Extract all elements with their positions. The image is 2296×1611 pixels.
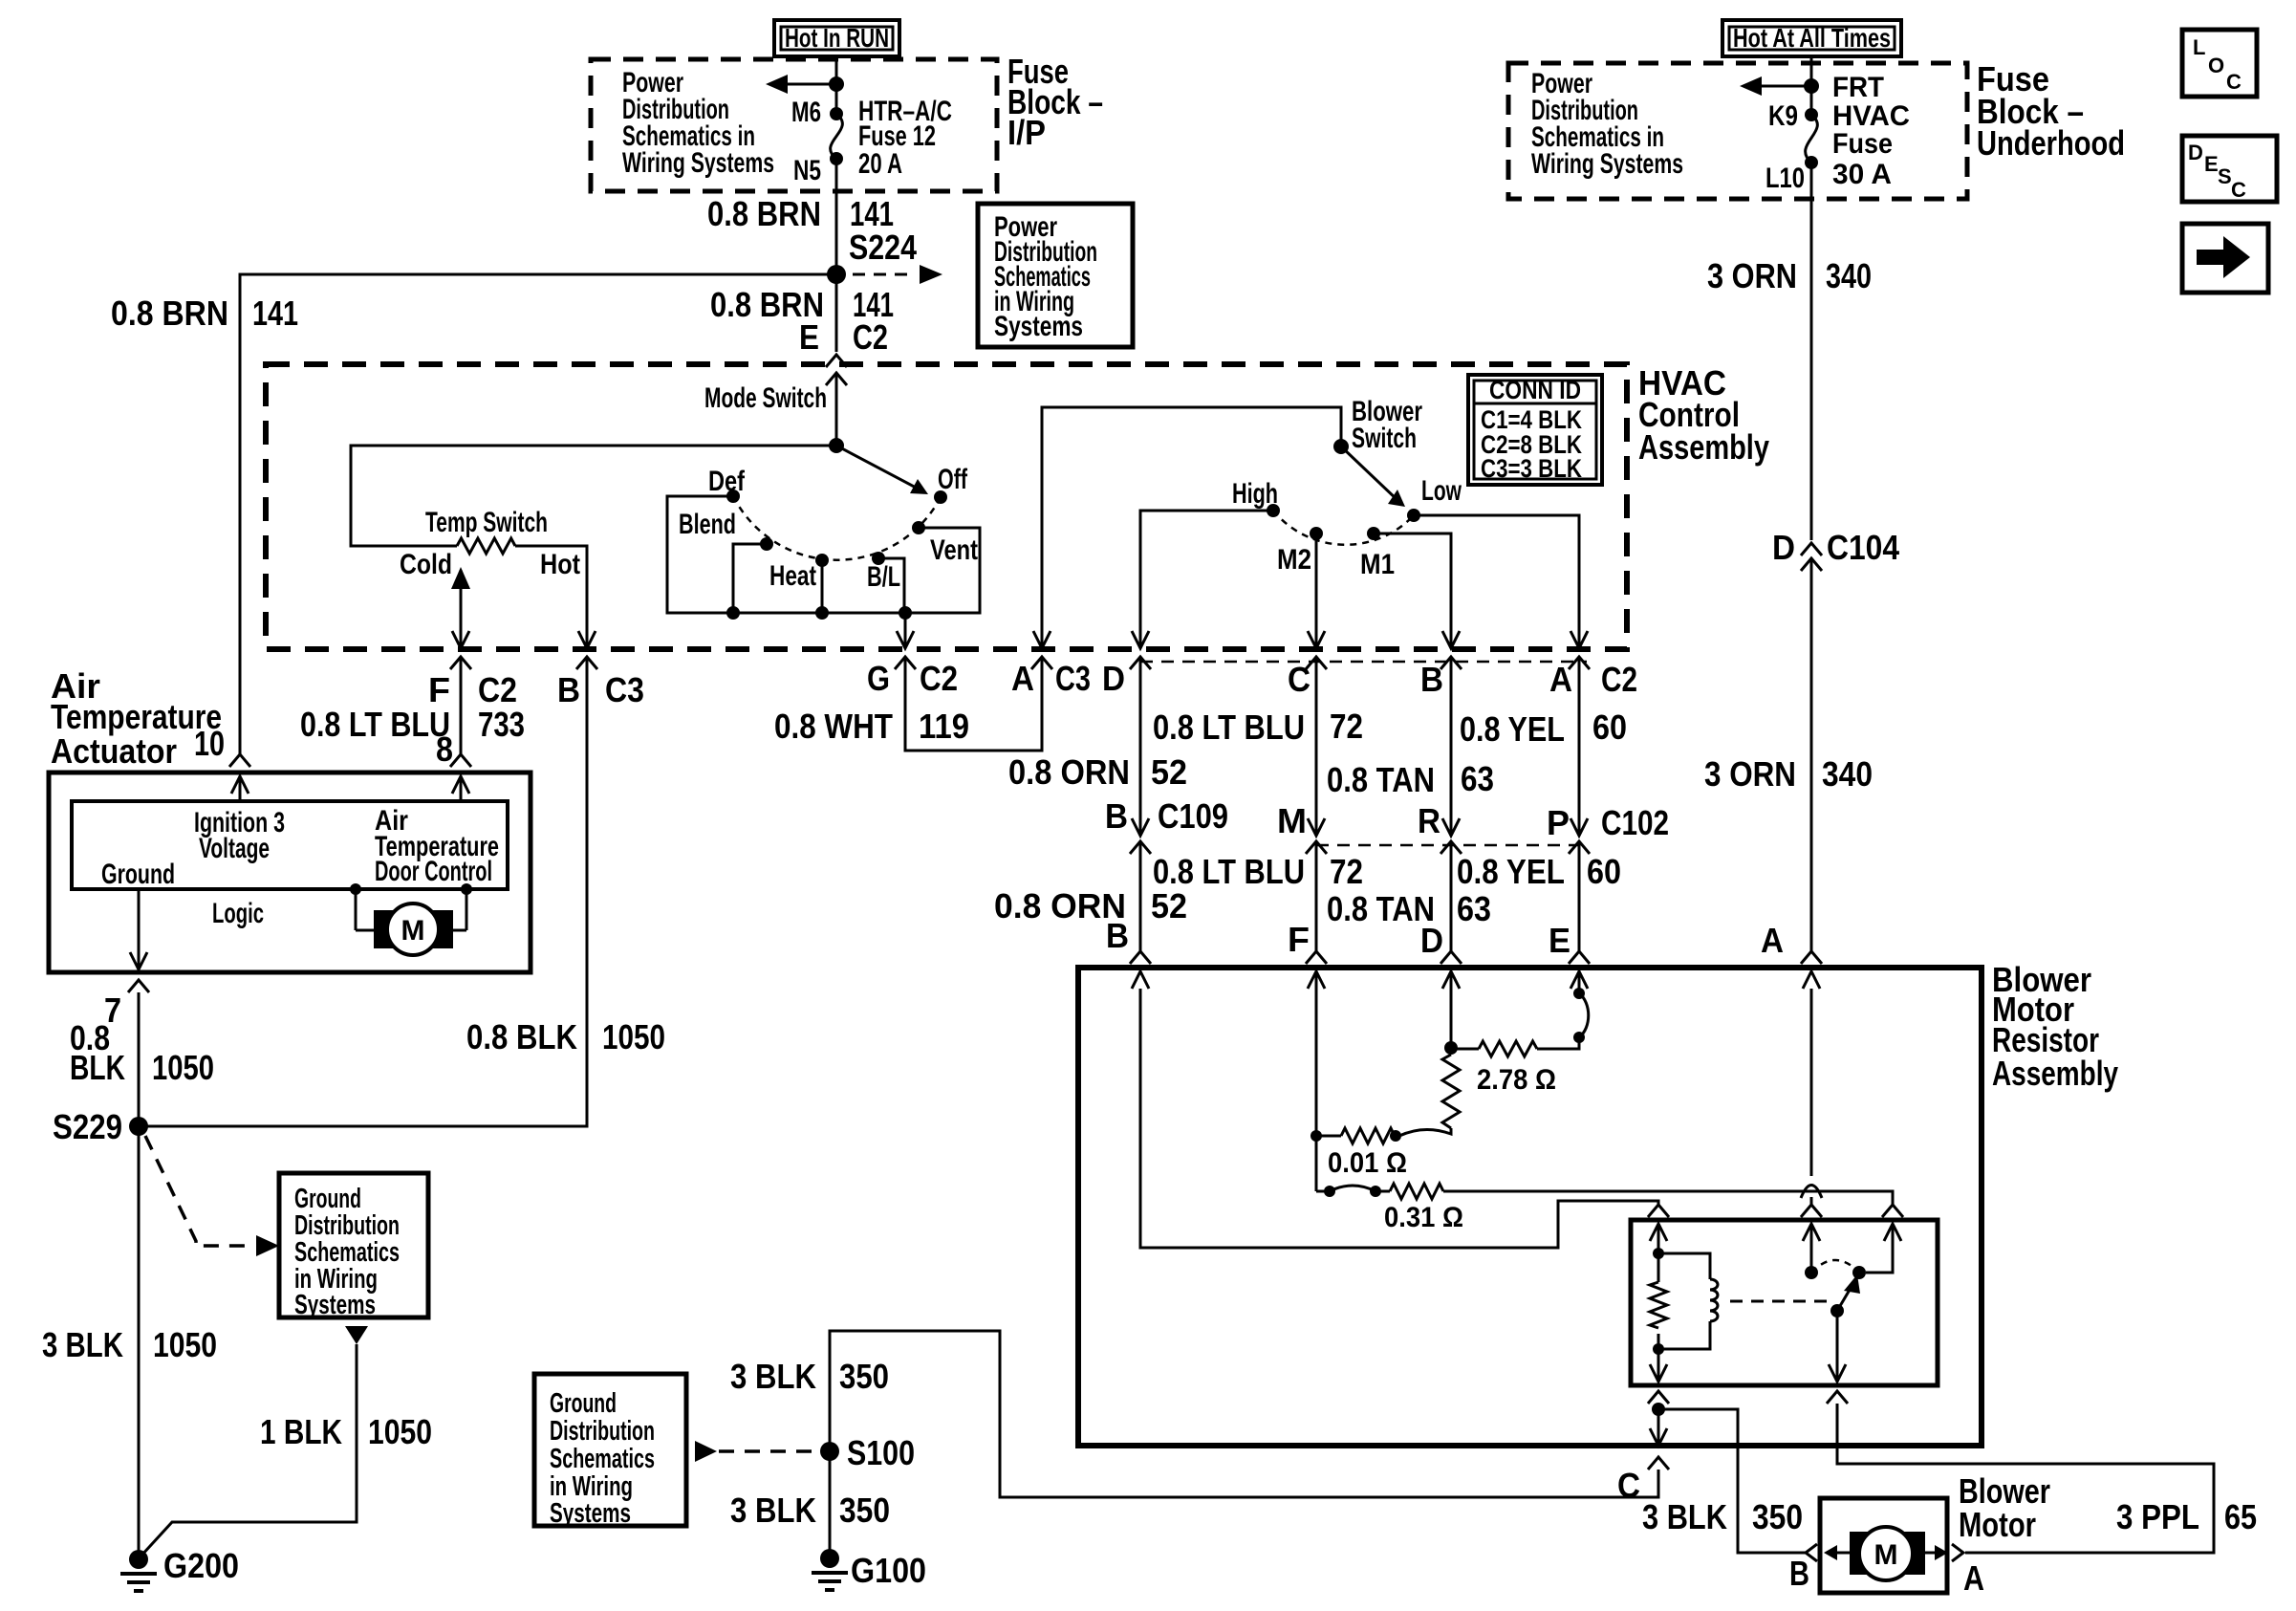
svg-text:C: C — [1288, 660, 1310, 699]
svg-text:E: E — [799, 317, 819, 357]
svg-text:0.8 LT BLU: 0.8 LT BLU — [1153, 708, 1305, 747]
svg-text:B/L: B/L — [867, 561, 900, 593]
fuse FRT HVAC Fuse 30 A — [1805, 108, 1818, 169]
resistor 2.78 ohm — [1479, 1041, 1537, 1056]
resistor 0.01 ohm — [1341, 1128, 1396, 1143]
label Power Distribution Schematics in Wiring Systems (underhood) — [1531, 68, 1683, 180]
connector A of C2 (low) — [1569, 657, 1590, 669]
wire from Hot At All Times into fuse block — [1810, 56, 1813, 115]
svg-text:Systems: Systems — [994, 311, 1083, 342]
relay entry chevrons — [1648, 1205, 1669, 1217]
label FRT HVAC Fuse 30 A — [1832, 72, 1910, 190]
relay suppression resistor — [1650, 1282, 1667, 1328]
wire B column step path to relay coil entry — [1140, 989, 1658, 1248]
svg-text:M: M — [401, 915, 425, 947]
svg-text:1 BLK: 1 BLK — [260, 1412, 342, 1451]
label HVAC Control Assembly — [1638, 363, 1769, 467]
svg-text:M6: M6 — [791, 97, 821, 128]
DESC reference box — [2182, 136, 2277, 202]
svg-text:M: M — [1874, 1539, 1898, 1571]
svg-text:3 BLK: 3 BLK — [730, 1357, 816, 1396]
svg-text:3 BLK: 3 BLK — [42, 1325, 123, 1364]
label 3 BLK 350 (upper) — [730, 1357, 889, 1396]
Blower Motor Resistor Assembly box — [1078, 968, 1982, 1446]
relay mechanical dashed link — [1730, 1300, 1830, 1303]
fuse HTR-A/C Fuse 12 20 A — [830, 107, 843, 165]
svg-text:8: 8 — [436, 729, 453, 769]
svg-text:S229: S229 — [53, 1107, 122, 1146]
svg-text:Logic: Logic — [212, 898, 264, 929]
svg-text:Ground: Ground — [101, 859, 175, 890]
blower switch dashed contact arc — [1273, 511, 1414, 545]
svg-text:52: 52 — [1151, 752, 1187, 792]
svg-text:Hot: Hot — [540, 549, 580, 580]
label 0.8 YEL 60 (row2) — [1457, 852, 1621, 891]
connector R of C102 — [1440, 658, 1462, 854]
node Hot In RUN tag box — [774, 20, 899, 56]
svg-text:2.78 Ω: 2.78 Ω — [1477, 1064, 1556, 1096]
svg-text:Door Control: Door Control — [375, 856, 492, 887]
svg-text:C: C — [2226, 70, 2242, 94]
svg-text:1050: 1050 — [152, 1048, 214, 1087]
wire vertical resistor bottom link — [1399, 1128, 1451, 1136]
LOC reference box — [2182, 30, 2257, 97]
wire actuator ground down to G200 — [138, 992, 141, 1559]
dashed reference from S229 to ground distribution box — [145, 1136, 279, 1256]
connector B of C2 (M1) — [1440, 657, 1462, 669]
dashed connector group line C102 — [1316, 844, 1579, 847]
svg-text:0.8 LT BLU: 0.8 LT BLU — [1153, 852, 1305, 891]
ground G100 — [812, 1549, 926, 1590]
wires row2 to resistor box entries — [1139, 841, 1142, 952]
blower switch contact M1 — [1367, 527, 1380, 540]
connector B of blower motor — [1806, 1544, 1817, 1561]
svg-text:C109: C109 — [1158, 796, 1228, 836]
label 7 / 0.8 BLK 1050 — [70, 991, 214, 1087]
labels C B A C2 — [1288, 660, 1637, 699]
label 0.8 YEL 60 (row1) — [1460, 708, 1627, 749]
svg-text:D: D — [1772, 528, 1795, 567]
wire S224 left branch — [240, 274, 836, 755]
wire relay common to blower motor A — [1837, 1404, 2214, 1553]
blower switch arm (to Low) — [1341, 446, 1405, 507]
svg-text:D: D — [2188, 141, 2203, 164]
power distribution schematics reference box — [978, 204, 1133, 347]
wire 1 BLK 1050 from box to G200 — [141, 1344, 357, 1557]
wire M1 to B connector — [1374, 533, 1460, 648]
connector A of blower motor — [1952, 1544, 1963, 1561]
svg-text:D: D — [1102, 659, 1125, 698]
svg-text:B: B — [1420, 660, 1443, 699]
splice S229 — [53, 1107, 148, 1146]
label 1 BLK 1050 — [260, 1412, 432, 1451]
svg-text:0.8 TAN: 0.8 TAN — [1327, 889, 1435, 928]
connector below relay coil exit — [1648, 1391, 1669, 1404]
svg-text:L: L — [2193, 35, 2205, 59]
wire C104 down to resistor assembly pin A — [1810, 558, 1813, 951]
svg-text:C2: C2 — [853, 317, 888, 357]
connector C of C2 (M2) — [1306, 657, 1327, 669]
resistor vertical (D to 0.01 node) — [1442, 1055, 1460, 1128]
svg-text:1050: 1050 — [602, 1017, 665, 1056]
dashed reference arrow from S224 to power distribution box — [853, 265, 942, 284]
svg-text:S100: S100 — [847, 1433, 915, 1472]
svg-text:350: 350 — [1752, 1497, 1803, 1536]
svg-text:0.8 YEL: 0.8 YEL — [1457, 852, 1565, 891]
label E C2 — [799, 317, 888, 357]
relay entry arrows — [1650, 1224, 1901, 1241]
label Blower Motor — [1959, 1471, 2050, 1544]
connector below relay common exit — [1827, 1391, 1848, 1404]
wire from Hot In RUN into fuse block — [835, 56, 838, 114]
connector chevrons at resistor box B F D E A — [1130, 951, 1151, 964]
relay common output wire — [1829, 1311, 1846, 1382]
wire Low to A connector — [1414, 515, 1588, 648]
svg-text:340: 340 — [1826, 256, 1872, 295]
svg-text:141: 141 — [252, 294, 298, 333]
label Air Temperature Actuator — [51, 666, 222, 771]
label 3 BLK 350 (blower motor) — [1642, 1497, 1803, 1536]
splice S100 — [820, 1433, 915, 1472]
svg-text:Voltage: Voltage — [199, 833, 270, 864]
label 0.8 TAN 63 (row1) — [1327, 759, 1494, 799]
label 0.8 WHT 119 — [774, 707, 969, 746]
wire column D/B (x1192) — [1139, 658, 1142, 836]
fuse block I/P dashed box — [591, 59, 997, 191]
splice S224 — [827, 228, 917, 284]
svg-text:F: F — [428, 670, 450, 709]
blower motor M symbol — [1824, 1527, 1948, 1580]
mode switch contact B/L — [872, 552, 885, 565]
svg-text:E: E — [2204, 152, 2219, 176]
CONN ID table — [1468, 375, 1602, 485]
wire mode switch output to G connector — [897, 613, 914, 648]
wire fuse output down to C104 — [1810, 163, 1813, 540]
svg-text:63: 63 — [1457, 889, 1491, 928]
mode switch arm (to Off) — [836, 446, 928, 494]
svg-text:Underhood: Underhood — [1977, 123, 2125, 163]
svg-text:FRT: FRT — [1832, 72, 1884, 103]
relay coil ground junction — [1650, 1403, 1667, 1446]
relay coil node top — [1653, 1224, 1664, 1282]
mode switch contact Def — [726, 490, 740, 503]
motor M inside actuator — [350, 883, 472, 955]
svg-text:340: 340 — [1822, 754, 1873, 794]
label 0.8 BLK 1050 — [466, 1017, 665, 1056]
svg-text:Blend: Blend — [679, 509, 736, 540]
mode switch feed junction — [829, 438, 844, 453]
svg-text:Temp Switch: Temp Switch — [425, 507, 548, 538]
label 0.8 BRN 141 (above S224) — [707, 194, 894, 233]
svg-text:E: E — [1549, 921, 1570, 960]
svg-text:C102: C102 — [1601, 803, 1669, 842]
svg-text:0.8 YEL: 0.8 YEL — [1460, 709, 1565, 749]
wire temp hot to S229 — [139, 658, 587, 1126]
labels G C2 A C3 D — [867, 659, 1125, 698]
wire S224 branch to actuator pin 10 — [194, 724, 250, 767]
blower switch pivot — [1333, 439, 1349, 454]
labels F C2 B C3 — [428, 670, 644, 709]
svg-text:K9: K9 — [1768, 100, 1798, 132]
wire blower switch feed from A(C3) — [1042, 407, 1341, 648]
label 0.8 TAN 63 (row2) — [1327, 889, 1491, 928]
wire mode switch feed to temp switch box — [351, 446, 836, 546]
svg-text:733: 733 — [478, 705, 525, 744]
svg-text:0.01 Ω: 0.01 Ω — [1328, 1147, 1407, 1179]
mode switch contact Vent — [912, 521, 925, 534]
label 0.8 ORN 52 (row1) — [1008, 752, 1187, 792]
svg-text:52: 52 — [1151, 886, 1187, 925]
connector F of C2 (temp switch wiper) — [450, 657, 471, 669]
label B and A (motor pins) — [1789, 1554, 1984, 1598]
svg-text:I/P: I/P — [1007, 113, 1046, 152]
blower motor box — [1820, 1498, 1947, 1593]
svg-text:High: High — [1232, 478, 1278, 510]
svg-text:Def: Def — [708, 466, 746, 497]
label 3 BLK 350 (lower) — [730, 1491, 890, 1530]
svg-text:Low: Low — [1421, 475, 1462, 507]
svg-text:B: B — [1106, 916, 1129, 955]
svg-text:3 BLK: 3 BLK — [1642, 1497, 1727, 1536]
forward arrow reference box — [2182, 224, 2268, 293]
blower switch contact M2 — [1310, 527, 1323, 540]
svg-text:A: A — [1549, 660, 1572, 699]
connector G of C2 (mode switch out) — [895, 657, 916, 669]
svg-text:60: 60 — [1592, 708, 1627, 747]
label 0.8 LT BLU 733 — [300, 705, 525, 769]
svg-text:Wiring Systems: Wiring Systems — [1531, 148, 1683, 180]
svg-text:0.8 ORN: 0.8 ORN — [1008, 752, 1130, 792]
svg-text:3 ORN: 3 ORN — [1707, 256, 1797, 295]
svg-text:1050: 1050 — [153, 1325, 217, 1364]
arrow to other loads (left) in underhood fuse block — [1740, 76, 1819, 96]
actuator pin 10 arrow — [231, 776, 249, 801]
wire A column down to relay — [1801, 989, 1822, 1205]
svg-text:R: R — [1418, 801, 1440, 840]
mode switch position wiring bus — [667, 496, 980, 620]
ground distribution schematics box (left) — [279, 1173, 428, 1320]
temp switch resistor — [457, 538, 515, 554]
actuator logic inner box — [72, 801, 508, 889]
mode switch contact Off — [934, 490, 947, 504]
svg-text:B: B — [1789, 1554, 1809, 1593]
ground distribution schematics box (center) — [534, 1374, 686, 1529]
relay coil — [1658, 1253, 1718, 1349]
svg-text:C: C — [1617, 1466, 1640, 1505]
arrow to other loads (left) in I/P fuse block — [766, 75, 844, 94]
connector B of C3 (temp switch hot) — [576, 657, 597, 669]
svg-text:N5: N5 — [793, 155, 821, 186]
svg-text:0.31 Ω: 0.31 Ω — [1384, 1202, 1463, 1233]
relay box — [1631, 1220, 1938, 1385]
wire mode G loop to blower feed A — [905, 658, 1042, 751]
svg-text:Mode Switch: Mode Switch — [704, 382, 827, 414]
svg-text:D: D — [1420, 921, 1443, 960]
ground G200 — [120, 1546, 239, 1591]
svg-text:O: O — [2208, 54, 2224, 77]
label Blower Motor Resistor Assembly — [1992, 960, 2118, 1093]
svg-text:C3: C3 — [605, 670, 644, 709]
svg-text:C3: C3 — [1055, 659, 1091, 698]
svg-text:S: S — [2218, 164, 2232, 188]
wire 3 BLK 350 blower motor ground run — [830, 1331, 1658, 1558]
svg-text:Systems: Systems — [294, 1290, 376, 1320]
svg-text:CONN ID: CONN ID — [1489, 376, 1581, 404]
svg-text:BLK: BLK — [70, 1048, 125, 1087]
wire M2 to C connector — [1308, 533, 1325, 648]
svg-text:C2: C2 — [1601, 660, 1637, 699]
svg-text:M: M — [1277, 801, 1307, 840]
temp switch wiper double arrow — [451, 567, 470, 648]
arrow from ground box down to 1 BLK wire — [345, 1326, 368, 1344]
mode switch dashed contact arc — [733, 496, 941, 560]
connector D of C104 — [1772, 528, 1899, 571]
temp switch hot side wire — [515, 546, 596, 648]
labels B C109 M R P C102 — [1105, 796, 1669, 842]
arrow and dashed reference to S100 — [695, 1441, 818, 1462]
blower switch contact Low — [1407, 509, 1420, 522]
wire E column with curved jumper — [1537, 971, 1589, 1049]
label 0.8 BRN 141 (left branch) — [111, 294, 298, 333]
label 0.8 LT BLU 72 (row2) — [1153, 852, 1363, 891]
svg-text:350: 350 — [839, 1357, 889, 1396]
svg-text:Vent: Vent — [930, 534, 978, 566]
connector chevron at actuator pin 8 — [450, 754, 471, 767]
connector B of C109 — [1130, 818, 1151, 854]
svg-text:F: F — [1288, 920, 1310, 959]
relay switch contacts — [1805, 1224, 1893, 1279]
svg-text:C2: C2 — [478, 670, 517, 709]
svg-text:Actuator: Actuator — [51, 731, 177, 771]
svg-text:Systems: Systems — [550, 1498, 631, 1529]
svg-text:B: B — [1105, 796, 1128, 836]
wire High to D connector — [1132, 511, 1273, 648]
relay coil node bottom — [1650, 1334, 1667, 1382]
svg-text:0.8 TAN: 0.8 TAN — [1327, 760, 1435, 799]
svg-text:0.8 WHT: 0.8 WHT — [774, 707, 893, 746]
wire relay to blower motor B — [1658, 1409, 1806, 1553]
connector P of C102 — [1569, 658, 1590, 854]
connector A of C3 (blower switch feed) — [1031, 657, 1052, 669]
connector E of C2 (HVAC control entry) — [826, 355, 847, 446]
Air Temperature Actuator box — [49, 773, 531, 972]
svg-text:0.8 BLK: 0.8 BLK — [466, 1017, 577, 1056]
svg-text:3 PPL: 3 PPL — [2116, 1497, 2199, 1536]
svg-text:C3=3 BLK: C3=3 BLK — [1481, 454, 1582, 483]
label HTR-A/C Fuse 12 20 A — [858, 96, 952, 180]
wire D column to junction — [1444, 971, 1479, 1055]
svg-text:C2: C2 — [920, 659, 958, 698]
svg-text:B: B — [557, 670, 580, 709]
svg-text:65: 65 — [2224, 1497, 2257, 1536]
label Fuse Block - I/P — [1007, 52, 1103, 152]
svg-text:63: 63 — [1461, 759, 1494, 798]
svg-text:Hot At All Times: Hot At All Times — [1733, 23, 1891, 53]
svg-text:C: C — [2231, 178, 2246, 202]
label Blower Switch — [1352, 396, 1422, 454]
HVAC Control Assembly dashed box — [266, 364, 1627, 649]
svg-text:30 A: 30 A — [1832, 159, 1892, 190]
svg-text:Assembly: Assembly — [1992, 1054, 2118, 1093]
svg-text:Distribution: Distribution — [550, 1416, 655, 1447]
labels inside actuator — [101, 805, 499, 929]
actuator ground pin wire — [130, 889, 147, 969]
svg-text:Switch: Switch — [1352, 423, 1417, 454]
actuator pin 8 arrow — [452, 776, 469, 801]
wire 0.31 output to relay M1 entry — [1443, 1191, 1893, 1205]
label 0.8 BRN 141 (below S224) — [710, 285, 894, 324]
blower switch contact High — [1267, 504, 1280, 517]
dashed connector group line C2/C3 — [1140, 661, 1587, 664]
svg-text:Heat: Heat — [769, 560, 816, 592]
svg-text:Assembly: Assembly — [1638, 427, 1769, 467]
svg-text:0.8 BRN: 0.8 BRN — [111, 294, 228, 333]
mode switch contact Blend — [760, 537, 773, 551]
connector C chevron below resistor box — [1617, 1457, 1669, 1505]
svg-text:C104: C104 — [1827, 528, 1899, 567]
connector below actuator ground pin — [128, 980, 149, 992]
wire fuse output down to S224 — [835, 159, 838, 352]
svg-text:3 BLK: 3 BLK — [730, 1491, 816, 1530]
label 3 PPL 65 — [2116, 1497, 2257, 1536]
entry arrows inside resistor box — [1132, 971, 1820, 989]
svg-text:0.8 LT BLU: 0.8 LT BLU — [300, 705, 450, 744]
label 0.8 ORN 52 (row2) — [994, 886, 1187, 925]
svg-text:3 ORN: 3 ORN — [1704, 754, 1796, 794]
svg-text:72: 72 — [1330, 852, 1363, 891]
mode switch contact Heat — [815, 554, 829, 567]
label 0.8 LT BLU 72 (row1) — [1153, 707, 1363, 747]
svg-text:Ground: Ground — [550, 1388, 617, 1419]
svg-text:Cold: Cold — [400, 549, 452, 580]
svg-text:60: 60 — [1587, 852, 1621, 891]
labels B F D E A (into resistor assembly) — [1106, 916, 1784, 960]
wire F column through 0.01 node down to 0.31 — [1310, 971, 1390, 1197]
svg-text:G100: G100 — [851, 1551, 926, 1590]
svg-text:Wiring Systems: Wiring Systems — [622, 147, 774, 179]
svg-text:Motor: Motor — [1959, 1505, 2036, 1544]
fuse block underhood dashed box — [1508, 63, 1967, 199]
label Fuse Block - Underhood — [1977, 59, 2125, 163]
label 3 ORN 340 (upper) — [1707, 256, 1872, 295]
svg-text:350: 350 — [839, 1491, 890, 1530]
svg-text:72: 72 — [1330, 707, 1363, 746]
svg-text:A: A — [1011, 659, 1034, 698]
connector D of C3 (high) — [1130, 657, 1151, 669]
svg-text:Fuse: Fuse — [1832, 128, 1893, 160]
svg-text:0.8 BRN: 0.8 BRN — [707, 194, 821, 233]
svg-text:119: 119 — [919, 707, 969, 746]
svg-text:L10: L10 — [1765, 163, 1805, 194]
svg-text:Schematics: Schematics — [550, 1444, 655, 1474]
svg-text:A: A — [1761, 921, 1784, 960]
svg-text:S224: S224 — [849, 228, 917, 267]
svg-text:Hot In RUN: Hot In RUN — [785, 23, 889, 53]
svg-text:Temperature: Temperature — [51, 697, 222, 736]
svg-text:20 A: 20 A — [858, 148, 902, 180]
label 3 BLK 1050 — [42, 1325, 217, 1364]
node Hot At All Times tag box — [1722, 20, 1901, 56]
svg-text:M2: M2 — [1277, 544, 1311, 576]
svg-text:M1: M1 — [1360, 549, 1395, 580]
resistor 0.31 ohm — [1390, 1184, 1443, 1199]
label 3 ORN 340 (lower) — [1704, 754, 1873, 794]
svg-text:G200: G200 — [163, 1546, 239, 1585]
svg-text:Off: Off — [938, 464, 968, 495]
connector M of C102 — [1306, 658, 1327, 854]
wire temp wiper to actuator pin 8 — [460, 658, 463, 755]
svg-text:1050: 1050 — [368, 1412, 432, 1451]
